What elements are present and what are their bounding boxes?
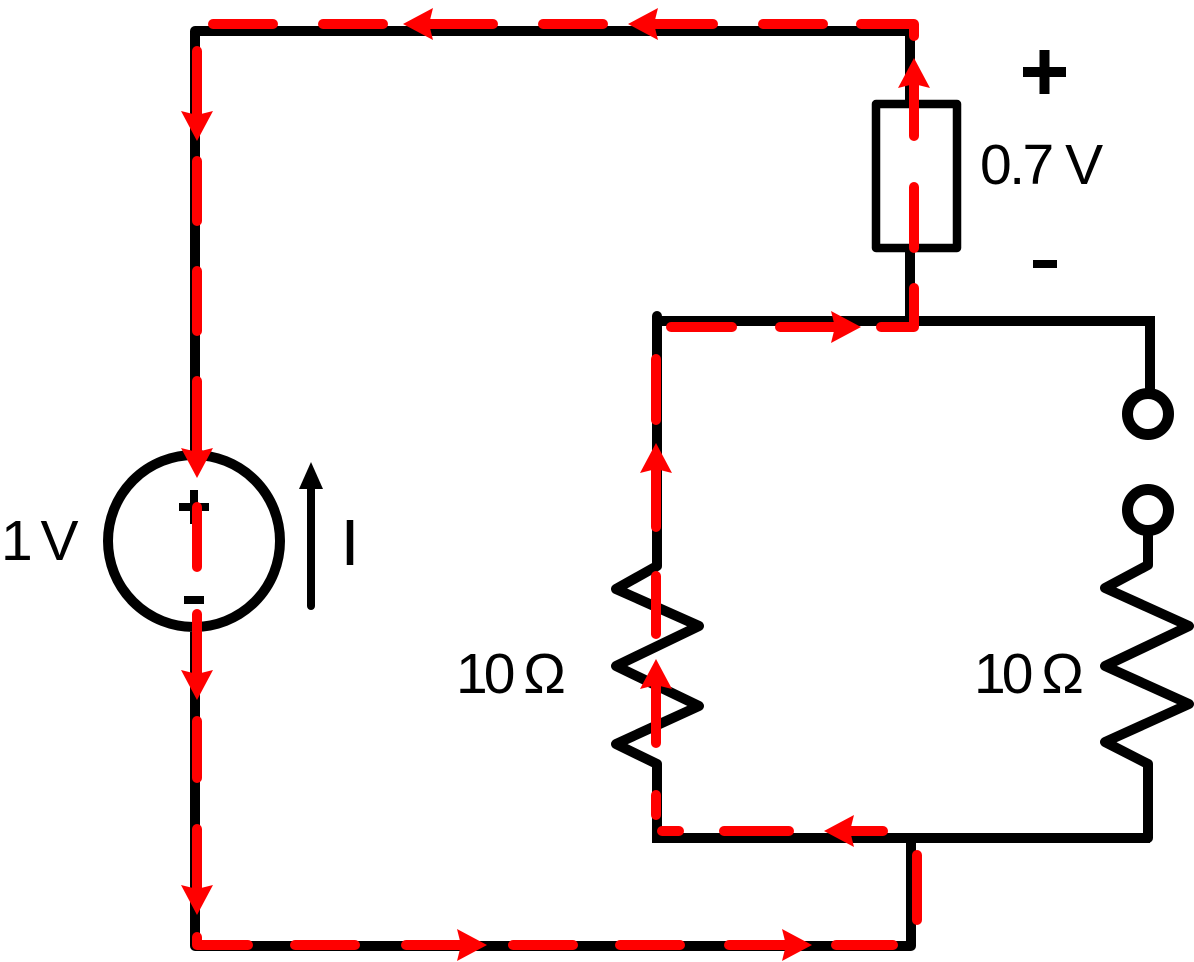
current dash (mid branch below resistor) [651,795,661,815]
current dash (mid-top horizontal) [671,322,732,332]
current dash (mid-top corner wrap) [881,288,914,327]
current dash (left wire lower, arrow tail) [192,829,202,883]
current dash (top wire, arrow tail) [435,19,493,29]
current dash (diode branch, arrow tail) [909,90,919,136]
current dash (mid-bottom horizontal) [724,826,789,836]
current reference arrow (I) [299,462,323,606]
polarity - (0.7 V) [1033,260,1057,268]
current arrow (below source, down) [181,658,213,700]
V1 minus polarity mark [184,596,204,604]
current arrow (into source, down) [181,436,213,478]
svg-text:10 Ω: 10 Ω [974,642,1082,706]
voltage source V1 (1 V) [108,455,280,627]
current arrow (top wire, left) [403,8,445,40]
current arrow (bottom wire, right) [770,929,812,961]
current dash (mid branch in resistor, arrow tail) [651,691,661,743]
current dash (top wire) [543,19,603,29]
wire: diode-branch lower lead [905,248,915,326]
current dash (through source V1) [192,507,202,567]
current dash (mid branch in resistor) [651,576,661,634]
current dash (mid branch upper) [651,359,661,420]
current dash (left wire lower) [192,721,202,778]
current dash (source exit, arrow tail) [192,614,202,668]
terminal T1 (open) [1128,394,1169,435]
terminal T2 (open) [1128,490,1169,531]
current dash (left wire) [192,161,202,221]
current dash (mid branch, arrow tail) [651,475,661,527]
svg-text:10 Ω: 10 Ω [456,642,564,706]
current dash (right-bottom vertical) [912,855,922,920]
polarity + (0.7 V) [1023,50,1066,94]
current dash (left wire, arrow tail) [192,381,202,446]
current dash (bottom wire) [836,940,893,950]
current dash (bottom wire) [513,940,573,950]
svg-text:1 V: 1 V [1,509,79,573]
current arrow (diode branch, up) [898,58,930,100]
current dash (bottom-left corner wrap) [197,937,248,945]
wire: right branch top lead to terminal [1145,316,1155,389]
current arrow (mid branch, up) [640,443,672,485]
voltage drop element D1 (0.7 V box) [876,104,957,248]
current arrow (bottom wire, right) [445,929,487,961]
current arrow (top wire, left) [628,8,670,40]
current arrow (mid branch, up) [640,659,672,701]
current arrow (mid-bottom, left) [824,815,866,847]
wire: left + top + diode-branch upper (node A loop) [195,31,910,452]
current dash (top wire) [763,19,823,29]
current arrow (mid-top, right) [819,311,861,343]
wire: bottom return + right-bottom vertical [195,632,911,946]
current dash (top-right corner wrap) [861,24,914,36]
current dash (bottom wire, arrow tail) [729,940,780,950]
current dash (top wire) [323,19,383,29]
current arrow (left wire, down) [181,99,213,141]
current arrow (left wire lower, down) [181,873,213,915]
current dash (top wire, arrow tail) [660,19,713,29]
current dash (diode branch lower) [909,187,919,248]
current dash (left wire) [192,271,202,331]
current dash (mid-top, arrow tail) [780,322,829,332]
wire: middle-bottom horizontal net [652,833,1150,843]
svg-text:0.7 V: 0.7 V [980,133,1103,197]
current dash (bottom wire) [295,940,355,950]
current dash (mid-bottom corner wrap) [662,826,679,836]
current dash (bottom wire, arrow tail) [406,940,455,950]
current dash (bottom wire) [620,940,680,950]
V1 plus polarity mark [179,490,209,524]
resistor R1 10 ohm (middle) with leads [616,316,699,838]
current dash (left wire) [192,51,202,109]
wire: middle-top horizontal net [652,316,1150,326]
resistor R2 10 ohm (right) [1105,536,1189,838]
current dash (top wire) [213,19,273,29]
current dash (mid-bottom, arrow tail) [856,826,883,836]
label I (current) [347,520,354,565]
